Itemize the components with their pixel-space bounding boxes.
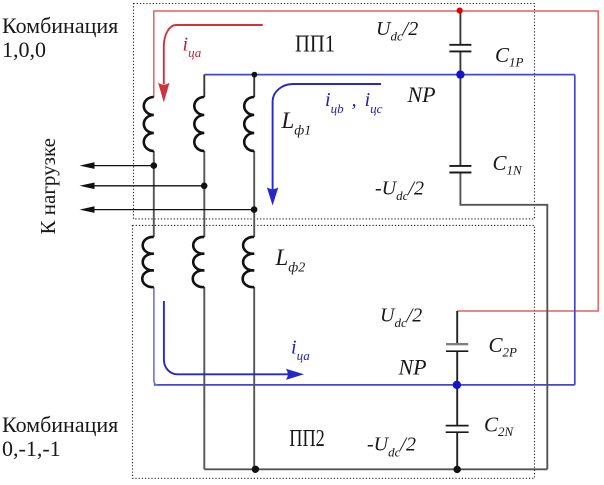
node NP terminal box1 (blue) bbox=[456, 70, 464, 78]
node junction leg3 top / NP rail bbox=[252, 72, 258, 78]
current path i_ца red (box1) bbox=[158, 25, 263, 103]
inductor Lb box1 bbox=[194, 97, 204, 151]
wire: C1P bottom stub bbox=[459, 51, 461, 74]
wire: C1P top stub bbox=[459, 11, 461, 44]
capacitor C1P bbox=[449, 45, 471, 52]
capacitor C1N bbox=[449, 166, 471, 173]
svg-text:ПП2: ПП2 bbox=[289, 426, 325, 452]
wire: C1N top stub bbox=[459, 75, 461, 166]
current path i_цb i_цc blue (box1) bbox=[267, 84, 381, 206]
wire: C2P top stub bbox=[456, 311, 458, 344]
node junction leg1/arrow a bbox=[151, 162, 158, 169]
wire: C2P bottom stub bbox=[456, 351, 458, 385]
svg-text:-Udc/2: -Udc/2 bbox=[375, 177, 424, 203]
inductor Lc box1 bbox=[244, 97, 254, 151]
load arrow a bbox=[80, 162, 154, 169]
wire: phase leg 2 box1 upper stub bbox=[203, 75, 205, 97]
svg-text:C1N: C1N bbox=[493, 151, 524, 178]
current path i_ца blue (box2) bbox=[164, 301, 304, 380]
svg-text:К нагрузке: К нагрузке bbox=[36, 138, 60, 234]
svg-text:C2N: C2N bbox=[484, 413, 515, 440]
capacitor C2N bbox=[446, 426, 469, 433]
svg-text:Комбинация: Комбинация bbox=[2, 412, 118, 437]
wire: phase leg 3 box2 below coil down to bottom rail bbox=[253, 287, 255, 469]
svg-text:-Udc/2: -Udc/2 bbox=[367, 434, 416, 460]
svg-text:iцb , iцc: iцb , iцc bbox=[325, 89, 383, 116]
inductor Lb box2 bbox=[193, 237, 205, 287]
svg-text:Lф1: Lф1 bbox=[281, 108, 312, 138]
svg-text:0,-1,-1: 0,-1,-1 bbox=[2, 436, 61, 461]
svg-text:1,0,0: 1,0,0 bbox=[2, 37, 46, 62]
svg-text:iца: iца bbox=[183, 34, 202, 61]
wire: blue NP rail box1 horizontal bbox=[204, 74, 575, 76]
wire: C2N top stub bbox=[456, 385, 458, 426]
node positive DC terminal (red) bbox=[457, 8, 463, 14]
svg-text:C1P: C1P bbox=[495, 43, 524, 70]
wire: blue NP box2 horizontal bbox=[154, 384, 575, 386]
wire: C2N bottom stub bbox=[456, 432, 458, 469]
dashed box PP1 bbox=[134, 4, 535, 219]
wire: blue NP right vertical bbox=[574, 75, 576, 385]
svg-text:Udc/2: Udc/2 bbox=[376, 18, 418, 44]
inductor Lc box2 bbox=[243, 237, 255, 287]
svg-text:ПП1: ПП1 bbox=[295, 32, 335, 58]
node junction leg3/arrow c bbox=[251, 206, 258, 213]
load arrow b bbox=[80, 183, 205, 190]
svg-text:Комбинация: Комбинация bbox=[2, 13, 118, 38]
svg-text:Lф2: Lф2 bbox=[275, 245, 306, 276]
wire: C1N bottom to right-side drop bbox=[460, 173, 547, 470]
inductor La box2 bbox=[142, 237, 154, 287]
load arrow c bbox=[80, 206, 255, 213]
wire: phase leg 2 box2 below coil down to bottom rail bbox=[203, 287, 205, 469]
node junction leg2/arrow b bbox=[201, 183, 208, 190]
wire: phase leg 1 box1 lower bbox=[153, 151, 155, 237]
inductor La box1 bbox=[144, 97, 154, 151]
dashed box PP2 bbox=[133, 225, 535, 478]
svg-text:iца: iца bbox=[291, 337, 310, 364]
wire: phase leg 3 box1 upper stub bbox=[253, 75, 255, 97]
capacitor C2P bbox=[446, 344, 468, 351]
svg-text:C2P: C2P bbox=[489, 333, 518, 360]
node NP terminal box2 (blue) bbox=[453, 381, 461, 389]
svg-text:NP: NP bbox=[398, 354, 427, 379]
svg-text:NP: NP bbox=[407, 82, 436, 107]
wire: red positive rail from phase-a leg to right side and down to C2P top bbox=[154, 11, 598, 311]
wire: bottom negative rail bbox=[204, 468, 547, 470]
wire: phase leg 2 box1 lower through to box2 coil bbox=[203, 151, 205, 237]
svg-text:Udc/2: Udc/2 bbox=[380, 304, 422, 330]
node junction C2N bottom rail bbox=[454, 466, 461, 473]
wire: phase leg 3 box1 lower through to box2 coil bbox=[253, 151, 255, 237]
node junction leg3 bottom rail bbox=[252, 466, 259, 473]
wire: blue drop from box2 coil1 to NP rail bbox=[154, 287, 158, 385]
